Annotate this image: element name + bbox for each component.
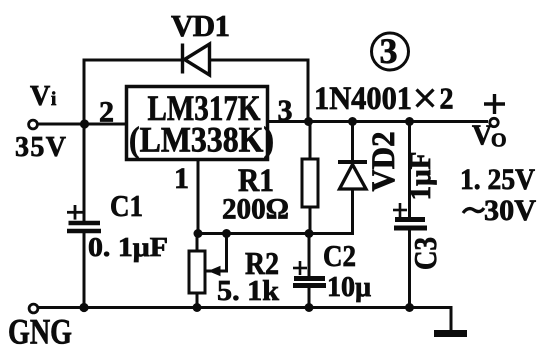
- node C1 bottom: [79, 303, 88, 312]
- node wiper tap: [222, 229, 231, 238]
- input terminal Vi: [29, 120, 38, 129]
- svg-text:V: V: [472, 121, 492, 152]
- node VD2 top: [348, 117, 357, 126]
- wire output rail: [267, 120, 488, 123]
- wire ground rail: [38, 306, 451, 309]
- svg-text:10μ: 10μ: [327, 272, 371, 303]
- svg-text:200Ω: 200Ω: [222, 193, 289, 226]
- wire pin1 vertical: [197, 160, 200, 234]
- svg-text:C1: C1: [110, 188, 143, 223]
- svg-text:V: V: [30, 81, 50, 112]
- resistor R2 potentiometer: [189, 234, 227, 309]
- wire input rail: [37, 123, 127, 126]
- diode VD1: [183, 44, 210, 76]
- svg-text:C2: C2: [323, 238, 356, 273]
- svg-text:GNG: GNG: [8, 312, 72, 352]
- node input junction: [80, 119, 89, 128]
- node R1 bottom: [305, 229, 314, 238]
- svg-text:1N4001: 1N4001: [314, 81, 412, 117]
- node pin1/R2: [194, 229, 203, 238]
- svg-text:1. 25V: 1. 25V: [460, 163, 535, 196]
- wire left bypass vertical: [84, 60, 181, 124]
- svg-text:O: O: [491, 130, 507, 152]
- diode VD2: [338, 122, 367, 234]
- svg-text:2: 2: [440, 81, 454, 116]
- label plus output: [484, 94, 505, 114]
- node C3 top: [405, 117, 414, 126]
- svg-text:5. 1k: 5. 1k: [217, 275, 280, 307]
- resistor R1: [302, 122, 318, 235]
- svg-text:i: i: [51, 89, 56, 110]
- svg-text:1: 1: [174, 162, 189, 195]
- symbol circled 3: [372, 31, 409, 71]
- svg-text:1μF: 1μF: [404, 152, 437, 201]
- svg-text:C3: C3: [407, 237, 443, 270]
- wire adj horizontal: [198, 232, 354, 235]
- node C2 bottom: [305, 303, 314, 312]
- svg-text:VD1: VD1: [171, 8, 230, 43]
- svg-text:0. 1μF: 0. 1μF: [88, 232, 168, 262]
- capacitor C2: [293, 234, 326, 309]
- svg-text:2: 2: [99, 96, 114, 129]
- svg-text:30V: 30V: [484, 194, 536, 227]
- capacitor C3: [393, 122, 427, 309]
- svg-text:3: 3: [380, 31, 398, 71]
- svg-text:VD2: VD2: [366, 132, 402, 192]
- output terminal Vo: [490, 118, 498, 126]
- node bypass/R1 junction: [304, 117, 313, 126]
- ground: [434, 306, 467, 334]
- IC regulator LM317K box: [127, 87, 268, 160]
- node C3 bottom: [405, 303, 414, 312]
- terminal GNG: [29, 304, 38, 313]
- capacitor C1: [67, 124, 101, 308]
- wire bypass top right: [209, 60, 308, 122]
- node R2 bottom: [193, 303, 202, 312]
- svg-text:35V: 35V: [15, 132, 66, 163]
- svg-text:(LM338K): (LM338K): [129, 120, 274, 160]
